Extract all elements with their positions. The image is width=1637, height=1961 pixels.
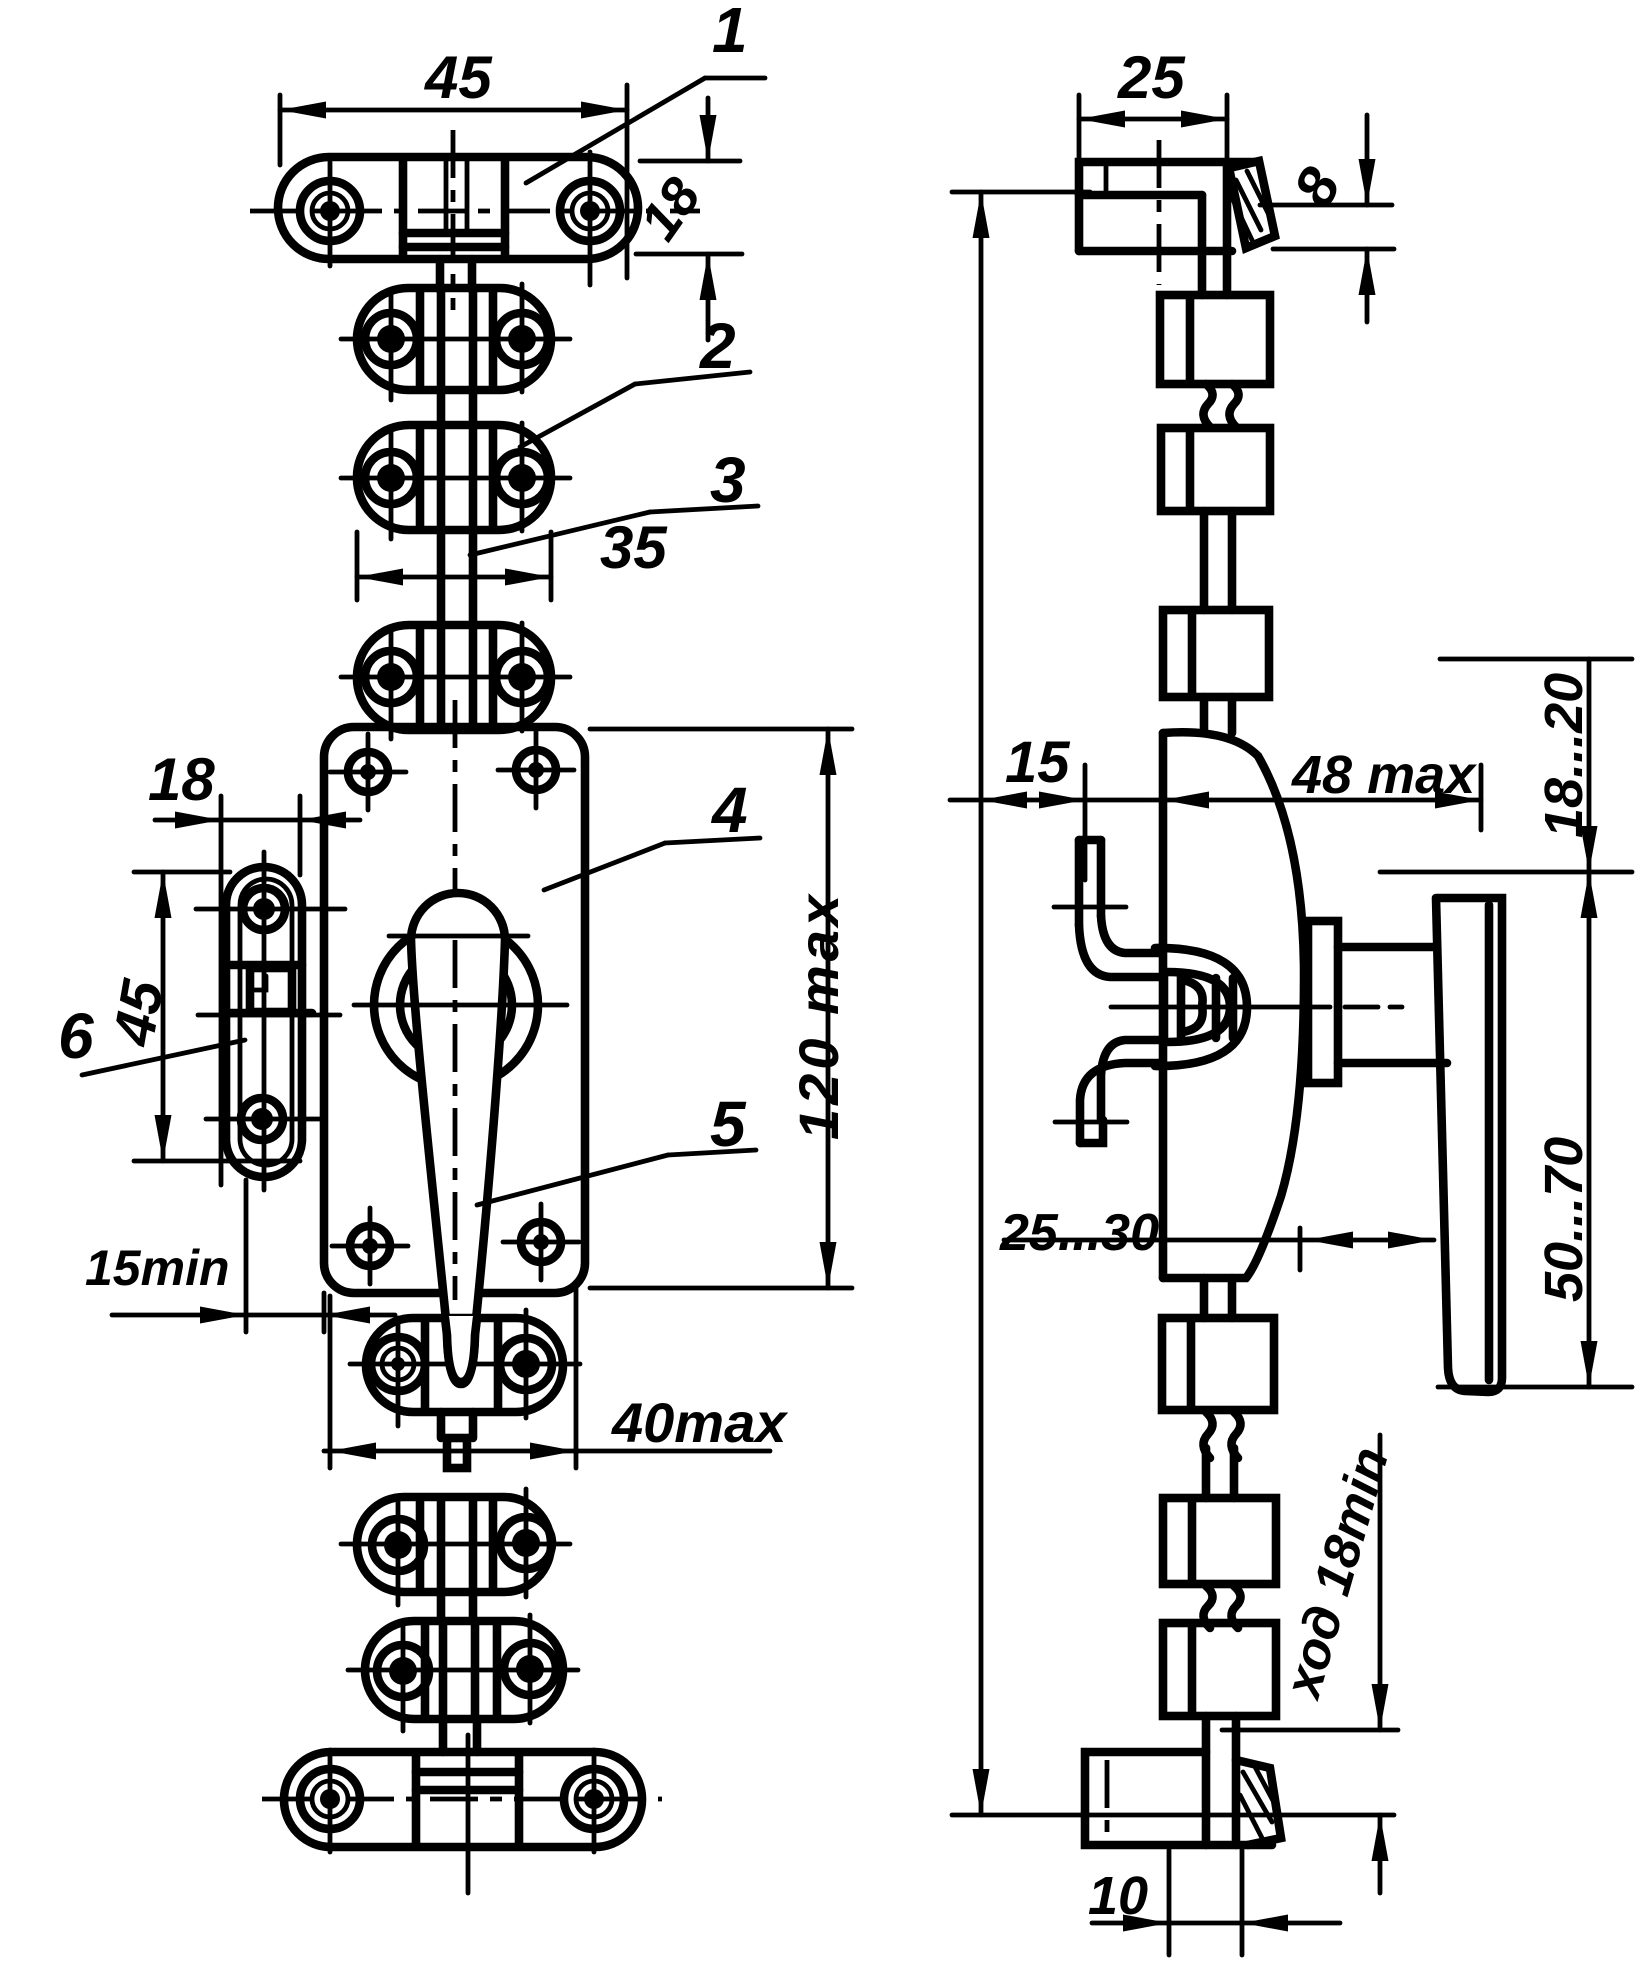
svg-text:6: 6 [58,1000,94,1072]
svg-text:120 max: 120 max [787,891,850,1140]
svg-text:45: 45 [101,975,177,1052]
svg-text:40max: 40max [611,1391,789,1454]
svg-text:4: 4 [710,774,748,846]
svg-text:18...20: 18...20 [1534,673,1594,838]
svg-text:3: 3 [710,444,746,516]
svg-text:25...30: 25...30 [999,1204,1159,1262]
svg-text:45: 45 [424,44,493,111]
svg-text:2: 2 [699,310,736,382]
svg-text:15min: 15min [85,1240,230,1296]
svg-text:25: 25 [1117,44,1186,111]
svg-text:50...70: 50...70 [1534,1137,1594,1302]
svg-text:15: 15 [1005,730,1070,795]
svg-text:1: 1 [712,0,748,66]
svg-text:10: 10 [1088,1866,1148,1926]
svg-text:5: 5 [710,1088,747,1160]
svg-text:18: 18 [148,746,215,813]
svg-text:35: 35 [600,514,668,581]
